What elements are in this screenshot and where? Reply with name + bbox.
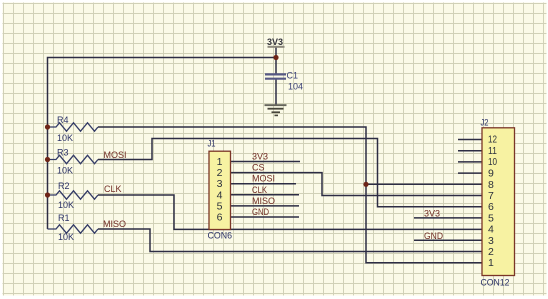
wire 3V3 bus top and left vertical [48, 58, 277, 230]
wire J2 pin11 stub [458, 150, 482, 152]
svg-text:5: 5 [488, 212, 494, 224]
label J1 CON6 [208, 118, 510, 288]
svg-text:R3: R3 [57, 148, 69, 158]
wire power 3V3 to cap C1 [275, 48, 277, 74]
svg-text:3V3: 3V3 [252, 152, 268, 162]
svg-text:CON6: CON6 [208, 231, 233, 241]
svg-text:3V3: 3V3 [424, 209, 440, 219]
svg-text:GND: GND [252, 207, 269, 217]
pin numbers J2 [488, 134, 497, 270]
svg-text:2: 2 [488, 246, 494, 258]
svg-text:10K: 10K [57, 166, 73, 176]
svg-text:6: 6 [217, 212, 223, 224]
svg-text:8: 8 [488, 179, 494, 191]
pin numbers J1 [217, 156, 223, 224]
wire J1 pin5 MISO [231, 205, 300, 207]
wire J2 pin10 stub [458, 161, 482, 163]
svg-text:MOSI: MOSI [104, 150, 127, 160]
wire CLK from R2 to J2 pin4 [98, 195, 482, 229]
connector J1 body [209, 151, 231, 229]
svg-text:MISO: MISO [252, 196, 275, 206]
junction dot bus-R2 [45, 192, 50, 197]
svg-text:R2: R2 [58, 181, 70, 191]
wire J1 pin3 MOSI [231, 183, 297, 185]
junction dot bus-R3 [45, 157, 50, 162]
svg-text:10K: 10K [57, 133, 73, 143]
svg-text:12: 12 [488, 134, 497, 146]
resistor R2 [48, 191, 99, 199]
wire J2 pin9 stub [458, 172, 482, 174]
junction dot trunk pin8 [363, 182, 368, 187]
svg-text:CON12: CON12 [481, 278, 510, 288]
wire CS J1 pin2 to J2 pin7 [231, 173, 483, 196]
wire J2 pin12 stub [458, 139, 482, 141]
wire MISO R1 to J2 pin2 [98, 229, 482, 252]
svg-text:10K: 10K [58, 200, 74, 210]
svg-text:CLK: CLK [252, 185, 267, 195]
power bar 3V3 [268, 46, 285, 48]
svg-text:6: 6 [488, 201, 494, 213]
svg-text:104: 104 [288, 82, 303, 92]
svg-text:MISO: MISO [103, 219, 126, 229]
svg-text:R1: R1 [58, 213, 70, 223]
svg-text:10K: 10K [58, 232, 74, 242]
svg-text:3: 3 [488, 235, 494, 247]
net labels red [103, 150, 443, 241]
wire J2 pin3 GND [414, 239, 482, 241]
svg-text:R4: R4 [57, 115, 69, 125]
ground [265, 104, 287, 116]
wire J1 pin4 CLK [231, 194, 300, 196]
label R4 [57, 115, 74, 242]
svg-text:GND: GND [424, 231, 443, 241]
resistor R4 [48, 123, 99, 131]
wire J1 pin1 3V3 [231, 161, 301, 163]
svg-text:CS: CS [252, 163, 265, 173]
svg-text:7: 7 [488, 190, 494, 202]
junction dot 3V3 cap [273, 55, 278, 60]
svg-text:9: 9 [488, 168, 494, 180]
resistor R3 [48, 155, 99, 163]
wire cap C1 to ground [275, 80, 277, 105]
svg-text:CLK: CLK [104, 184, 122, 194]
svg-text:MOSI: MOSI [252, 174, 275, 184]
svg-text:J2: J2 [481, 118, 489, 128]
svg-text:3V3: 3V3 [267, 37, 283, 48]
connector J2 body [482, 128, 515, 276]
svg-text:10: 10 [488, 156, 497, 168]
junction dot bus-R4 [45, 124, 50, 129]
capacitor C1 [265, 74, 286, 78]
wire junction branch to J2 pin8 [366, 183, 482, 185]
svg-text:4: 4 [488, 224, 494, 236]
wire R4 to J2 pin1 vertical trunk [98, 127, 482, 263]
wire J1 pin6 GND [231, 216, 300, 218]
svg-text:J1: J1 [208, 139, 216, 149]
wire MOSI R3 to J2 pin6 [98, 139, 482, 207]
svg-text:C1: C1 [287, 71, 299, 81]
label C1 [287, 71, 304, 92]
resistor R1 [48, 225, 99, 233]
svg-text:1: 1 [488, 257, 494, 269]
wire J2 pin5 3V3 [414, 217, 482, 219]
svg-text:11: 11 [488, 145, 497, 157]
